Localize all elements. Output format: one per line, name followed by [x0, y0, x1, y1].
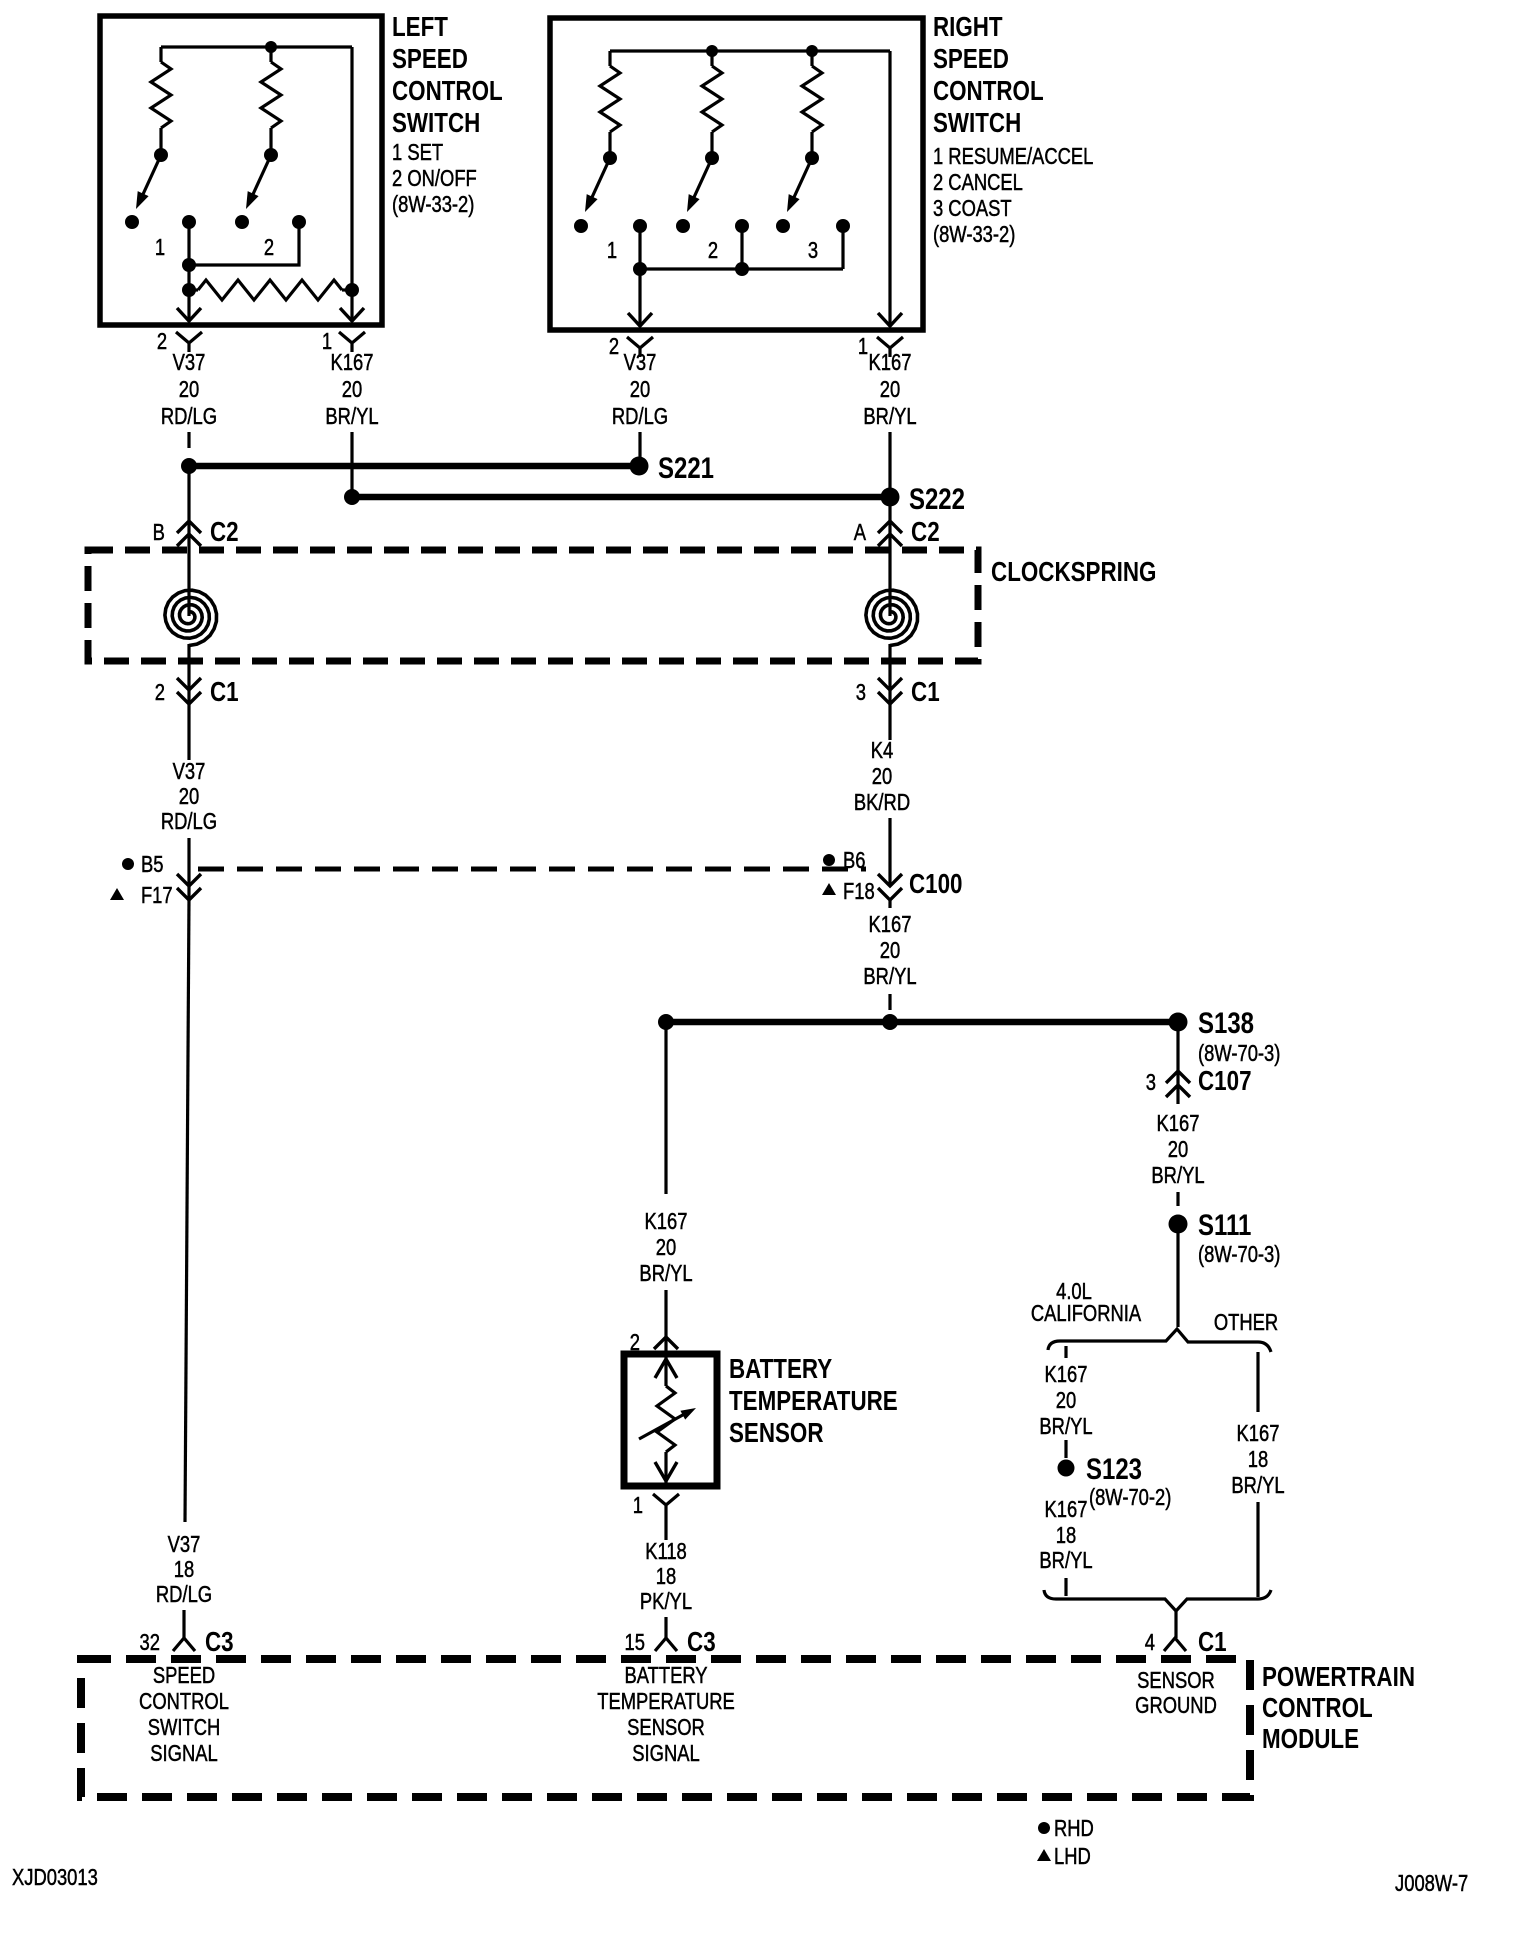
- svg-text:(8W-70-3): (8W-70-3): [1198, 1242, 1280, 1267]
- svg-text:2: 2: [630, 1330, 640, 1355]
- svg-text:SIGNAL: SIGNAL: [150, 1741, 217, 1766]
- svg-text:3 COAST: 3 COAST: [933, 196, 1012, 221]
- svg-text:GROUND: GROUND: [1135, 1693, 1217, 1718]
- svg-text:20: 20: [880, 938, 900, 963]
- svg-text:(8W-70-3): (8W-70-3): [1198, 1041, 1280, 1066]
- svg-text:CLOCKSPRING: CLOCKSPRING: [991, 557, 1156, 588]
- svg-text:B: B: [153, 520, 165, 545]
- svg-text:20: 20: [1056, 1388, 1076, 1413]
- svg-text:B6: B6: [843, 848, 866, 873]
- svg-text:CONTROL: CONTROL: [1262, 1693, 1373, 1724]
- svg-text:1 SET: 1 SET: [392, 140, 443, 165]
- svg-text:K167: K167: [1157, 1111, 1200, 1136]
- svg-text:BR/YL: BR/YL: [863, 404, 916, 429]
- svg-text:18: 18: [1056, 1523, 1076, 1548]
- svg-text:2: 2: [155, 680, 165, 705]
- svg-text:20: 20: [880, 377, 900, 402]
- svg-text:SIGNAL: SIGNAL: [632, 1741, 699, 1766]
- svg-text:1 RESUME/ACCEL: 1 RESUME/ACCEL: [933, 144, 1093, 169]
- svg-text:B5: B5: [141, 852, 164, 877]
- svg-text:V37: V37: [173, 350, 206, 375]
- svg-text:RD/LG: RD/LG: [161, 404, 217, 429]
- svg-text:K167: K167: [331, 350, 374, 375]
- svg-text:1: 1: [858, 334, 868, 359]
- svg-text:SWITCH: SWITCH: [933, 108, 1021, 139]
- svg-text:LHD: LHD: [1054, 1844, 1091, 1869]
- svg-text:J008W-7: J008W-7: [1395, 1871, 1468, 1896]
- svg-text:C1: C1: [1198, 1627, 1227, 1658]
- svg-text:SENSOR: SENSOR: [627, 1715, 705, 1740]
- svg-text:S222: S222: [909, 481, 965, 515]
- svg-text:C1: C1: [911, 677, 940, 708]
- svg-text:C3: C3: [687, 1627, 716, 1658]
- svg-text:S111: S111: [1198, 1207, 1251, 1241]
- svg-text:CONTROL: CONTROL: [139, 1689, 229, 1714]
- svg-text:K118: K118: [645, 1539, 687, 1564]
- svg-text:2 CANCEL: 2 CANCEL: [933, 170, 1023, 195]
- svg-text:RHD: RHD: [1054, 1816, 1094, 1841]
- svg-text:SWITCH: SWITCH: [148, 1715, 221, 1740]
- svg-text:BATTERY: BATTERY: [624, 1663, 707, 1688]
- svg-text:RIGHT: RIGHT: [933, 12, 1003, 43]
- svg-text:20: 20: [630, 377, 650, 402]
- svg-text:TEMPERATURE: TEMPERATURE: [597, 1689, 735, 1714]
- svg-text:POWERTRAIN: POWERTRAIN: [1262, 1662, 1415, 1693]
- svg-text:20: 20: [179, 784, 199, 809]
- svg-text:2 ON/OFF: 2 ON/OFF: [392, 166, 477, 191]
- svg-text:BR/YL: BR/YL: [1039, 1414, 1092, 1439]
- svg-text:2: 2: [157, 329, 167, 354]
- svg-text:4: 4: [1145, 1630, 1155, 1655]
- svg-text:3: 3: [856, 680, 866, 705]
- svg-text:1: 1: [633, 1493, 643, 1518]
- svg-text:20: 20: [656, 1235, 676, 1260]
- svg-text:LEFT: LEFT: [392, 12, 448, 43]
- svg-text:C2: C2: [210, 517, 239, 548]
- svg-text:SPEED: SPEED: [392, 44, 468, 75]
- svg-text:MODULE: MODULE: [1262, 1724, 1359, 1755]
- svg-text:OTHER: OTHER: [1214, 1310, 1278, 1335]
- svg-text:1: 1: [607, 238, 617, 263]
- svg-text:A: A: [854, 520, 866, 545]
- svg-text:V37: V37: [173, 759, 206, 784]
- svg-text:BATTERY: BATTERY: [729, 1354, 832, 1385]
- svg-text:C107: C107: [1198, 1066, 1252, 1097]
- svg-text:S138: S138: [1198, 1005, 1254, 1039]
- svg-text:2: 2: [708, 238, 718, 263]
- svg-text:K167: K167: [1045, 1497, 1088, 1522]
- svg-text:BR/YL: BR/YL: [1151, 1163, 1204, 1188]
- svg-text:20: 20: [179, 377, 199, 402]
- svg-text:SWITCH: SWITCH: [392, 108, 480, 139]
- svg-text:BR/YL: BR/YL: [1231, 1473, 1284, 1498]
- svg-text:K167: K167: [1237, 1421, 1280, 1446]
- svg-text:SPEED: SPEED: [153, 1663, 215, 1688]
- svg-text:C100: C100: [909, 869, 963, 900]
- svg-text:C1: C1: [210, 677, 239, 708]
- svg-text:PK/YL: PK/YL: [640, 1589, 692, 1614]
- svg-text:3: 3: [1146, 1070, 1156, 1095]
- svg-text:32: 32: [140, 1630, 160, 1655]
- svg-text:BK/RD: BK/RD: [854, 790, 910, 815]
- svg-text:(8W-33-2): (8W-33-2): [933, 222, 1015, 247]
- svg-text:V37: V37: [624, 350, 657, 375]
- svg-text:18: 18: [174, 1557, 194, 1582]
- svg-text:K167: K167: [869, 350, 912, 375]
- svg-text:S123: S123: [1086, 1451, 1142, 1485]
- svg-text:CALIFORNIA: CALIFORNIA: [1031, 1301, 1141, 1326]
- svg-text:2: 2: [609, 334, 619, 359]
- svg-text:BR/YL: BR/YL: [863, 964, 916, 989]
- svg-text:C3: C3: [205, 1627, 234, 1658]
- svg-text:(8W-70-2): (8W-70-2): [1089, 1485, 1171, 1510]
- svg-text:18: 18: [656, 1564, 676, 1589]
- svg-text:BR/YL: BR/YL: [325, 404, 378, 429]
- svg-text:SPEED: SPEED: [933, 44, 1009, 75]
- svg-text:SENSOR: SENSOR: [1137, 1668, 1215, 1693]
- svg-text:RD/LG: RD/LG: [612, 404, 668, 429]
- svg-text:K167: K167: [645, 1209, 688, 1234]
- svg-text:20: 20: [342, 377, 362, 402]
- svg-text:XJD03013: XJD03013: [12, 1865, 98, 1890]
- svg-text:K167: K167: [869, 912, 912, 937]
- svg-text:15: 15: [625, 1630, 645, 1655]
- svg-text:F18: F18: [843, 879, 875, 904]
- svg-text:BR/YL: BR/YL: [1039, 1548, 1092, 1573]
- svg-text:CONTROL: CONTROL: [933, 76, 1044, 107]
- svg-text:RD/LG: RD/LG: [161, 809, 217, 834]
- svg-text:BR/YL: BR/YL: [639, 1261, 692, 1286]
- svg-text:CONTROL: CONTROL: [392, 76, 503, 107]
- svg-text:V37: V37: [168, 1532, 201, 1557]
- svg-text:1: 1: [155, 235, 165, 260]
- svg-text:20: 20: [1168, 1137, 1188, 1162]
- svg-text:18: 18: [1248, 1447, 1268, 1472]
- svg-text:2: 2: [264, 235, 274, 260]
- svg-text:K167: K167: [1045, 1362, 1088, 1387]
- svg-text:C2: C2: [911, 517, 940, 548]
- svg-text:F17: F17: [141, 883, 173, 908]
- svg-text:S221: S221: [658, 450, 714, 484]
- svg-text:3: 3: [808, 238, 818, 263]
- svg-text:RD/LG: RD/LG: [156, 1582, 212, 1607]
- svg-text:(8W-33-2): (8W-33-2): [392, 192, 474, 217]
- svg-text:TEMPERATURE: TEMPERATURE: [729, 1386, 898, 1417]
- svg-text:K4: K4: [871, 738, 894, 763]
- svg-text:20: 20: [872, 764, 892, 789]
- svg-text:SENSOR: SENSOR: [729, 1418, 824, 1449]
